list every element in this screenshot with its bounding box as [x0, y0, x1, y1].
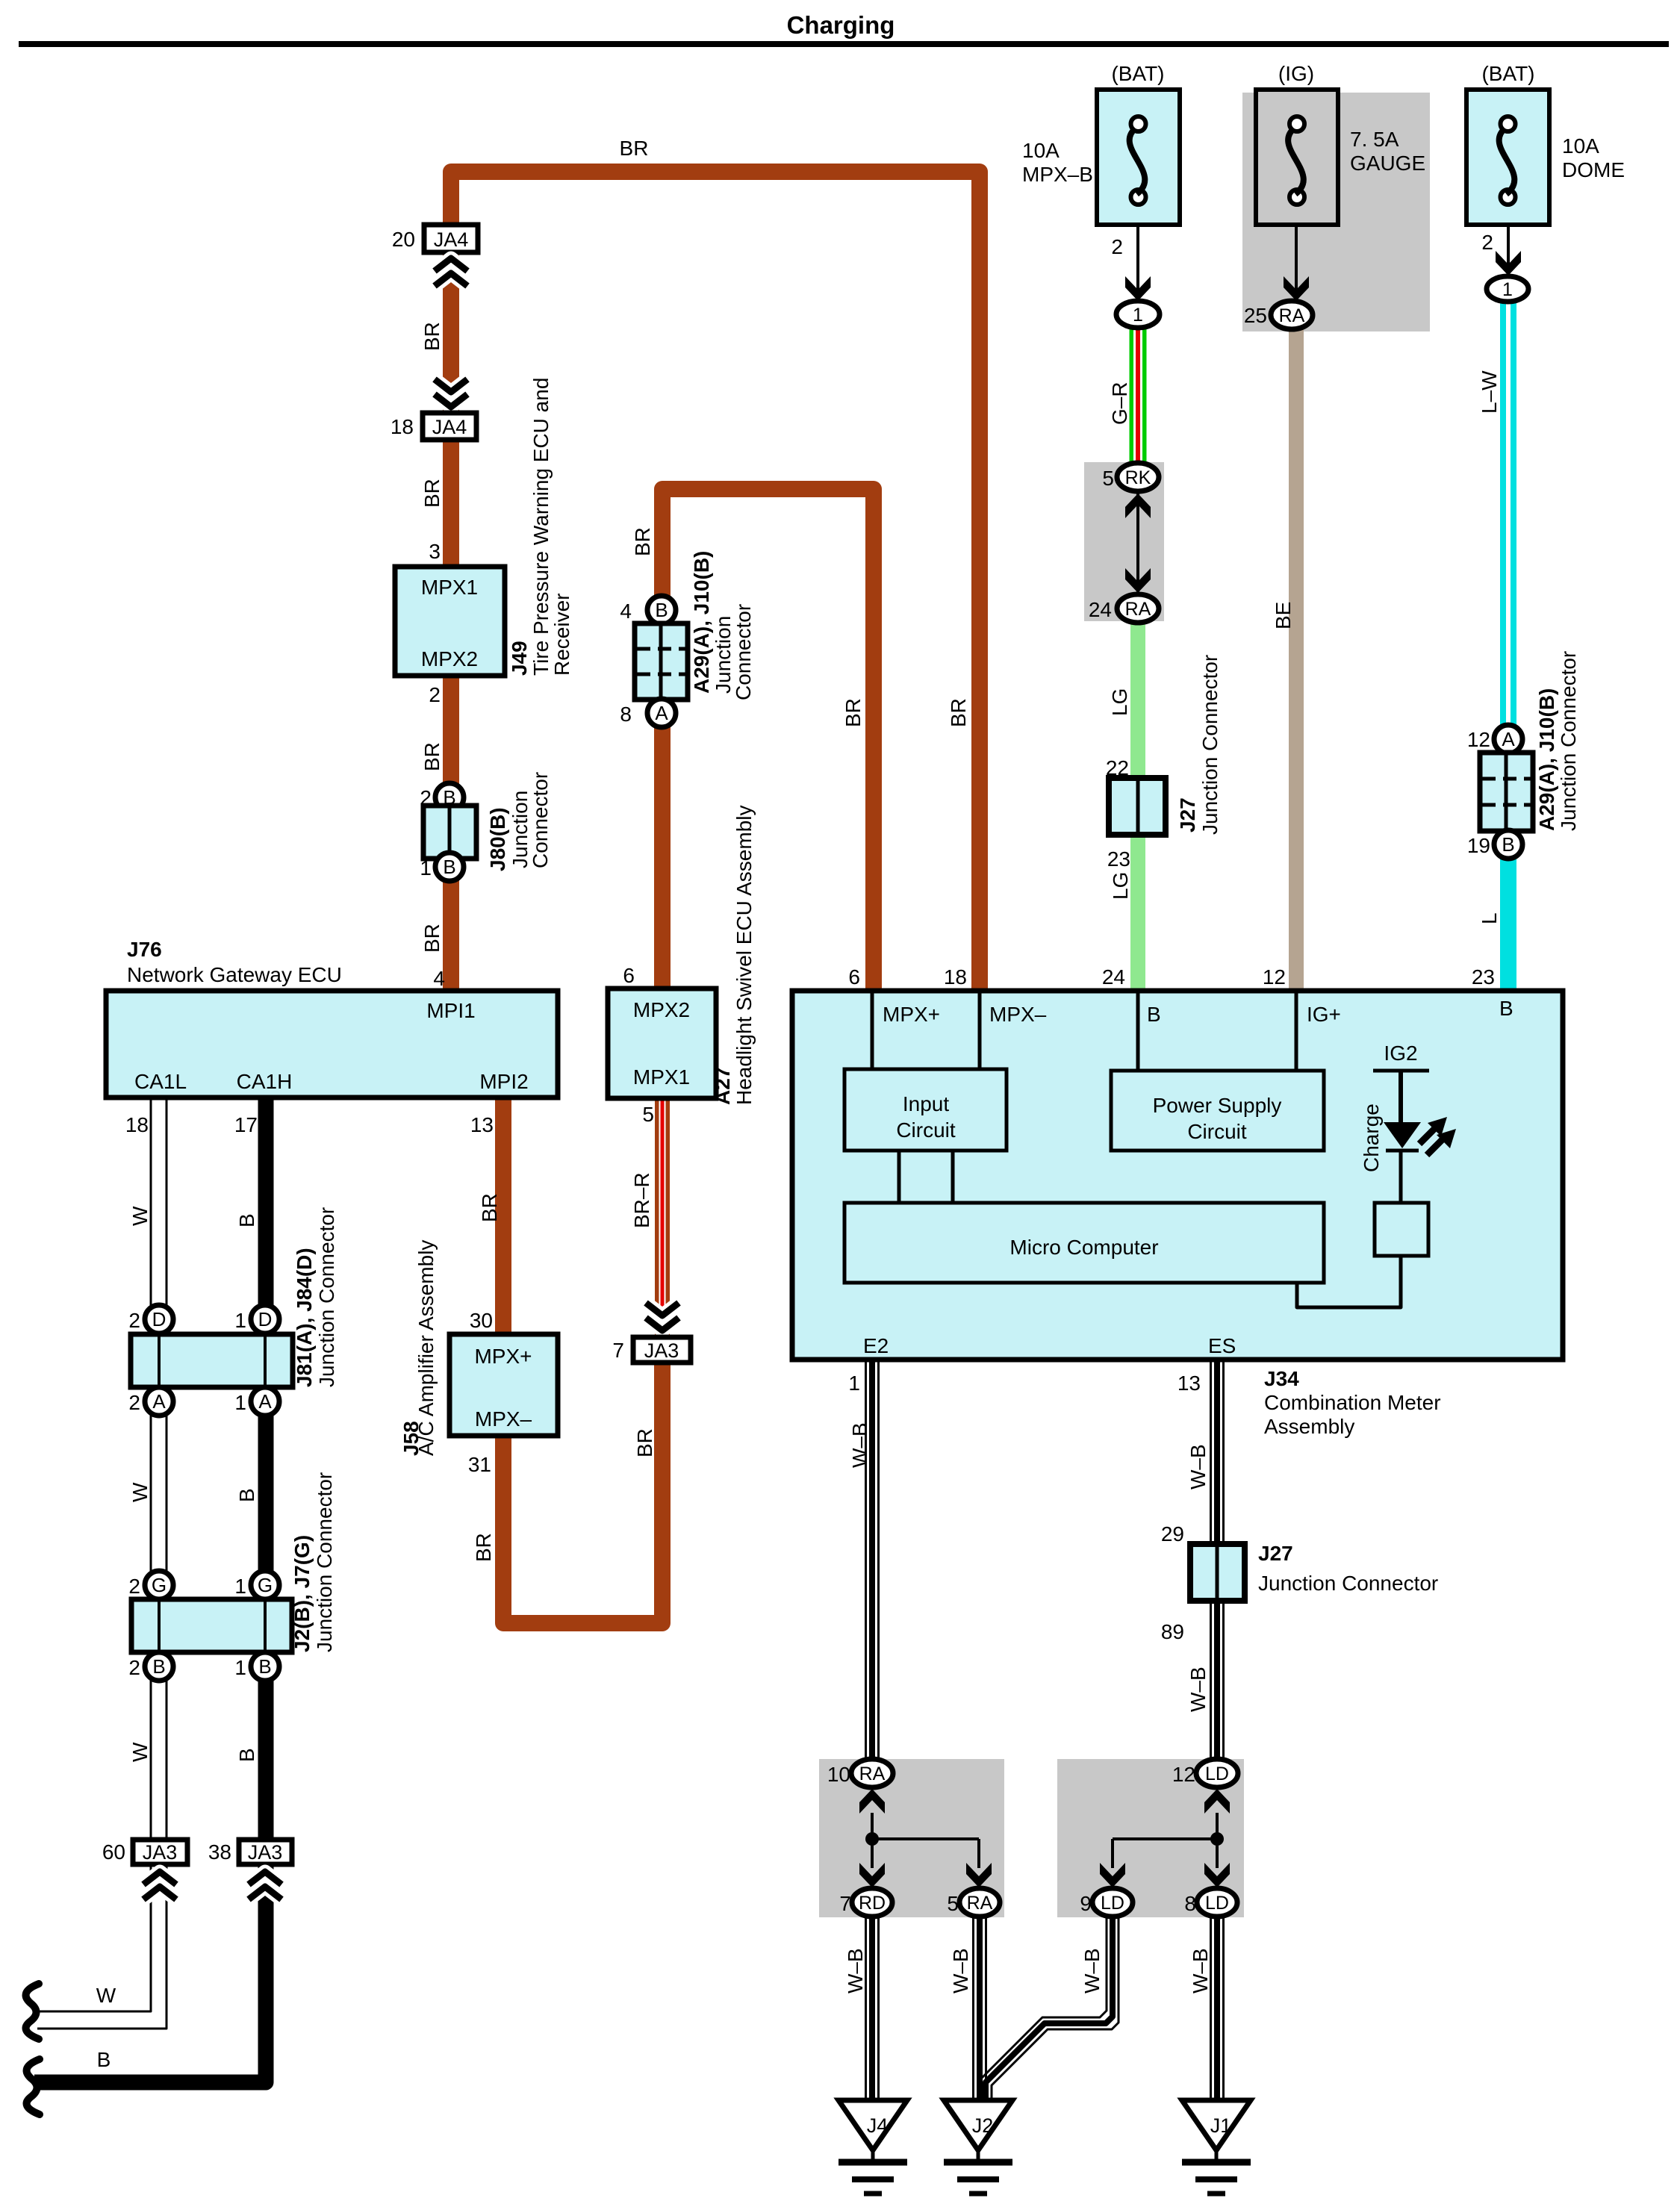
svg-text:J80(B): J80(B) — [486, 807, 509, 871]
svg-text:J2(B), J7(G): J2(B), J7(G) — [290, 1535, 314, 1652]
arrows up JA3 pin60 — [143, 1872, 176, 1884]
svg-text:Charge: Charge — [1360, 1104, 1383, 1172]
svg-text:B: B — [1502, 833, 1514, 856]
svg-text:2: 2 — [128, 1656, 140, 1679]
arrow down to connector RA pin25 — [1284, 276, 1309, 301]
svg-text:24: 24 — [1089, 598, 1112, 621]
svg-text:Junction Connector: Junction Connector — [315, 1207, 338, 1387]
svg-text:Circuit: Circuit — [1187, 1120, 1247, 1143]
svg-text:IG2: IG2 — [1384, 1042, 1417, 1065]
svg-text:J27: J27 — [1258, 1542, 1293, 1565]
svg-text:89: 89 — [1161, 1620, 1184, 1643]
svg-text:BR: BR — [472, 1533, 495, 1562]
wire black RK to RA inside gray block — [1136, 491, 1139, 596]
svg-text:MPX–: MPX– — [475, 1407, 532, 1431]
svg-text:W–B: W–B — [949, 1948, 972, 1993]
svg-text:Assembly: Assembly — [1264, 1415, 1354, 1438]
svg-text:1: 1 — [848, 1372, 860, 1395]
connector JA3 pin7 — [633, 1337, 691, 1363]
svg-text:Headlight Swivel ECU Assembly: Headlight Swivel ECU Assembly — [732, 806, 756, 1106]
wire BR J49 pin2 to J76 MPI1 pin4 — [443, 673, 459, 993]
J34 link micro to resistor — [1297, 1257, 1401, 1307]
svg-text:(BAT): (BAT) — [1481, 62, 1534, 85]
svg-text:Junction Connector: Junction Connector — [1198, 655, 1222, 835]
svg-text:12: 12 — [1263, 965, 1286, 989]
svg-text:19: 19 — [1467, 834, 1490, 857]
connector oval RK pin5 — [1117, 463, 1159, 491]
svg-text:IG+: IG+ — [1307, 1003, 1341, 1026]
junction connector A29(A) J10(B) right — [1494, 725, 1522, 753]
svg-text:Receiver: Receiver — [550, 594, 573, 676]
svg-text:BR: BR — [420, 322, 444, 351]
svg-text:MPX+: MPX+ — [474, 1345, 532, 1368]
svg-text:8: 8 — [1184, 1892, 1196, 1915]
junction connector J27 on ES wire — [1190, 1544, 1245, 1601]
svg-text:12: 12 — [1172, 1763, 1195, 1786]
svg-text:W–B: W–B — [1186, 1444, 1210, 1490]
svg-text:RD: RD — [859, 1893, 886, 1914]
cut squiggle W wire — [26, 1984, 39, 2039]
svg-text:BR: BR — [620, 137, 649, 160]
svg-text:22: 22 — [1106, 756, 1129, 779]
svg-text:RA: RA — [967, 1893, 993, 1914]
connector JA4 pin18 — [423, 413, 476, 440]
svg-text:BE: BE — [1272, 602, 1295, 629]
svg-text:A/C Amplifier Assembly: A/C Amplifier Assembly — [414, 1240, 438, 1456]
svg-text:17: 17 — [234, 1113, 258, 1136]
svg-text:J34: J34 — [1264, 1367, 1299, 1390]
connector oval RA pin10 — [851, 1759, 893, 1787]
svg-text:Tire Pressure Warning ECU and: Tire Pressure Warning ECU and — [529, 378, 553, 676]
svg-text:J49: J49 — [508, 641, 531, 676]
svg-text:4: 4 — [620, 600, 632, 623]
ground J4 — [839, 2100, 907, 2150]
svg-text:B: B — [258, 1655, 271, 1678]
svg-text:G: G — [258, 1574, 273, 1596]
svg-text:MPI2: MPI2 — [479, 1070, 528, 1093]
svg-text:(BAT): (BAT) — [1111, 62, 1164, 85]
svg-text:W–B: W–B — [844, 1948, 867, 1993]
svg-text:BR: BR — [420, 479, 444, 508]
connector oval LD pin8 — [1197, 1888, 1237, 1917]
svg-text:BR: BR — [420, 924, 444, 953]
svg-text:LG: LG — [1109, 872, 1132, 900]
ECU J58 A/C Amplifier Assembly — [449, 1334, 558, 1436]
wire W-B LD pin9 jog to ground J2 — [980, 1916, 1107, 2099]
svg-text:1: 1 — [420, 856, 432, 880]
svg-text:B: B — [443, 856, 455, 878]
svg-text:BR: BR — [631, 527, 654, 556]
gray background RK-RA connector block — [1084, 462, 1164, 621]
svg-text:8: 8 — [620, 703, 632, 726]
meter connector internal links right block — [1216, 1813, 1219, 1868]
svg-text:B: B — [152, 1655, 165, 1678]
fuse 10A DOME — [1466, 90, 1549, 225]
svg-text:LD: LD — [1205, 1764, 1229, 1784]
wire fuse GAUGE lead — [1295, 223, 1298, 294]
svg-text:BR–R: BR–R — [630, 1172, 653, 1228]
junction connector J81(A) J84(D) — [145, 1305, 173, 1333]
svg-text:2: 2 — [128, 1575, 140, 1598]
svg-text:5: 5 — [1102, 467, 1114, 490]
svg-text:MPI1: MPI1 — [426, 999, 475, 1022]
J34 Micro Computer block — [844, 1203, 1324, 1283]
J34 Power Supply Circuit block — [1111, 1071, 1324, 1151]
arrows up JA3 pin38 — [249, 1872, 281, 1884]
svg-text:A: A — [655, 702, 668, 724]
svg-text:2: 2 — [420, 786, 432, 809]
svg-text:W–B: W–B — [1186, 1666, 1210, 1712]
connector oval 1 MPX-B — [1116, 301, 1160, 328]
svg-text:Junction Connector: Junction Connector — [1557, 651, 1580, 831]
svg-text:J2: J2 — [972, 2114, 994, 2137]
svg-text:BR: BR — [841, 698, 865, 727]
svg-text:W–B: W–B — [848, 1422, 871, 1468]
svg-text:JA3: JA3 — [248, 1841, 283, 1864]
svg-text:B: B — [655, 599, 668, 621]
svg-text:Junction Connector: Junction Connector — [1258, 1572, 1438, 1595]
svg-text:1: 1 — [234, 1309, 246, 1332]
svg-text:D: D — [258, 1308, 273, 1330]
svg-text:24: 24 — [1102, 965, 1125, 989]
svg-text:W: W — [96, 1984, 116, 2007]
svg-text:A: A — [1502, 728, 1515, 750]
svg-text:B: B — [1147, 1003, 1161, 1026]
connector oval RA pin25 — [1271, 301, 1313, 329]
svg-text:25: 25 — [1244, 304, 1267, 327]
gray background meter connector block right — [1057, 1759, 1244, 1917]
svg-text:38: 38 — [208, 1840, 231, 1864]
cut squiggle B wire — [27, 2059, 40, 2114]
ECU J34 Combination Meter Assembly — [792, 991, 1563, 1360]
ECU J49 Tire Pressure Warning ECU and Receiver — [395, 567, 505, 676]
svg-text:W–B: W–B — [1080, 1948, 1104, 1993]
svg-text:CA1H: CA1H — [237, 1070, 293, 1093]
svg-text:23: 23 — [1107, 847, 1130, 871]
wire W-B LD pin8 to ground J1 — [1210, 1916, 1212, 2102]
fuse 7.5A GAUGE — [1256, 90, 1338, 225]
svg-text:RA: RA — [1125, 599, 1151, 620]
wire BE RA pin25 to J34 IG+ pin12 — [1289, 327, 1304, 993]
gray background IG fuse block — [1242, 93, 1430, 331]
svg-text:2: 2 — [1481, 231, 1493, 254]
svg-text:1: 1 — [1502, 279, 1513, 300]
wire LG RA pin24 to J34 B pin24 — [1130, 620, 1145, 993]
svg-text:W: W — [128, 1482, 152, 1502]
ground J1 — [1182, 2100, 1251, 2150]
svg-text:10: 10 — [827, 1763, 850, 1786]
svg-text:MPX–B: MPX–B — [1022, 163, 1093, 186]
ground J2 — [944, 2100, 1012, 2150]
svg-text:30: 30 — [470, 1309, 493, 1332]
svg-text:BR: BR — [947, 698, 970, 727]
svg-text:3: 3 — [429, 540, 441, 563]
svg-text:MPX2: MPX2 — [633, 998, 690, 1021]
svg-text:W–B: W–B — [1189, 1948, 1212, 1993]
svg-text:6: 6 — [623, 964, 635, 987]
svg-text:18: 18 — [391, 415, 414, 438]
svg-text:J76: J76 — [127, 938, 162, 961]
svg-text:J1: J1 — [1210, 2114, 1232, 2137]
wire G-R fuse MPX-B to RK pin5 — [1130, 326, 1147, 466]
svg-text:60: 60 — [102, 1840, 125, 1864]
junction connector J80(B) — [435, 783, 464, 812]
svg-text:MPX–: MPX– — [989, 1003, 1047, 1026]
svg-text:A29(A), J10(B): A29(A), J10(B) — [690, 551, 713, 694]
arrow down to connector 1 MPX-B — [1125, 276, 1151, 301]
J34 links input to micro — [897, 1151, 901, 1203]
svg-text:DOME: DOME — [1562, 158, 1625, 181]
connector JA4 pin20 — [424, 225, 478, 252]
svg-text:2: 2 — [128, 1391, 140, 1414]
svg-text:Input: Input — [903, 1092, 949, 1115]
wire W-B RA pin5 to ground J2 — [972, 1916, 974, 2102]
J34 internal pin lines — [871, 993, 874, 1069]
wire W-B J34 ES pin13 to meter connector LD pin12 — [1210, 1362, 1212, 1761]
svg-text:Power Supply: Power Supply — [1153, 1094, 1282, 1117]
fuse 10A MPX-B — [1097, 90, 1180, 225]
junction connector J27 on LG wire — [1109, 778, 1166, 835]
svg-text:7. 5A: 7. 5A — [1350, 128, 1399, 151]
arrows down JA3 pin7 — [646, 1303, 679, 1316]
svg-text:Combination Meter: Combination Meter — [1264, 1391, 1441, 1414]
wire B CA1H thick black — [34, 1096, 266, 2082]
arrow down to connector 1 DOME — [1496, 251, 1521, 276]
wire W-B RD pin7 to ground J4 — [865, 1916, 867, 2102]
wire L-W fuse DOME to J34 B pin23 — [1500, 300, 1516, 993]
svg-text:31: 31 — [468, 1453, 491, 1476]
connector oval RD pin7 — [852, 1888, 892, 1917]
svg-text:B: B — [1499, 997, 1513, 1020]
arrows up JA4 pin20 — [435, 258, 467, 271]
svg-text:5: 5 — [947, 1892, 959, 1915]
svg-text:B: B — [235, 1213, 258, 1227]
connector JA3 pin38 — [239, 1840, 292, 1864]
svg-text:10A: 10A — [1562, 134, 1599, 158]
svg-text:A: A — [152, 1390, 166, 1413]
svg-text:LD: LD — [1101, 1893, 1124, 1914]
ECU A27 Headlight Swivel ECU Assembly — [608, 989, 716, 1098]
J34 LED light arrows — [1419, 1128, 1435, 1144]
svg-text:RA: RA — [1279, 305, 1305, 326]
wire W CA1L double line — [37, 1096, 151, 2011]
svg-text:Connector: Connector — [732, 604, 755, 700]
svg-text:1: 1 — [1133, 305, 1143, 326]
svg-text:2: 2 — [128, 1309, 140, 1332]
svg-text:A: A — [258, 1390, 272, 1413]
svg-text:1: 1 — [234, 1656, 246, 1679]
svg-text:JA3: JA3 — [644, 1339, 679, 1362]
svg-text:LD: LD — [1205, 1893, 1229, 1914]
wire BR outer loop J49 pin3 to J34 MPX- pin18 — [451, 172, 980, 993]
junction connector A29(A) J10(B) left — [647, 596, 676, 624]
svg-text:23: 23 — [1472, 965, 1495, 989]
svg-text:13: 13 — [1177, 1372, 1201, 1395]
svg-text:GAUGE: GAUGE — [1350, 152, 1425, 175]
wire W-B J34 E2 pin1 to meter connector RA pin10 — [865, 1362, 867, 1761]
svg-text:BR: BR — [420, 742, 444, 771]
svg-text:RA: RA — [859, 1764, 886, 1784]
svg-text:D: D — [152, 1308, 167, 1330]
connector oval 1 DOME — [1487, 276, 1528, 302]
svg-text:W: W — [128, 1742, 152, 1762]
wire fuse DOME lead — [1507, 223, 1510, 269]
svg-text:1: 1 — [234, 1575, 246, 1598]
svg-text:5: 5 — [642, 1103, 654, 1126]
svg-text:MPX+: MPX+ — [883, 1003, 940, 1026]
connector oval RA pin5 — [959, 1888, 1000, 1917]
svg-text:7: 7 — [839, 1892, 851, 1915]
svg-text:MPX1: MPX1 — [421, 576, 478, 599]
arrow down to RA pin24 — [1125, 568, 1151, 593]
svg-text:4: 4 — [433, 967, 445, 990]
svg-text:CA1L: CA1L — [134, 1070, 187, 1093]
svg-text:A29(A), J10(B): A29(A), J10(B) — [1535, 688, 1558, 831]
svg-text:G–R: G–R — [1108, 382, 1131, 425]
svg-text:G: G — [152, 1574, 167, 1596]
connector oval RA pin24 — [1117, 594, 1159, 623]
svg-text:18: 18 — [944, 965, 967, 989]
svg-text:6: 6 — [848, 965, 860, 989]
meter connector internal links left block — [871, 1813, 874, 1868]
svg-text:7: 7 — [612, 1339, 624, 1362]
connector oval LD pin9 — [1092, 1888, 1133, 1917]
svg-text:W: W — [128, 1206, 152, 1226]
svg-text:J4: J4 — [867, 2114, 889, 2137]
svg-text:JA4: JA4 — [432, 416, 467, 438]
svg-text:J81(A), J84(D): J81(A), J84(D) — [293, 1248, 316, 1387]
svg-text:RK: RK — [1125, 467, 1151, 488]
svg-text:2: 2 — [429, 683, 441, 706]
svg-text:ES: ES — [1208, 1334, 1236, 1357]
wire fuse MPX-B lead — [1136, 223, 1139, 294]
svg-text:L–W: L–W — [1478, 370, 1501, 414]
wire BR U-loop J58 MPX- pin31 to JA3 pin7 — [503, 1365, 662, 1623]
svg-text:Junction Connector: Junction Connector — [313, 1472, 336, 1652]
svg-text:2: 2 — [1111, 235, 1123, 258]
svg-text:L: L — [1478, 912, 1501, 924]
svg-text:Micro Computer: Micro Computer — [1009, 1236, 1158, 1259]
svg-text:BR: BR — [478, 1193, 501, 1222]
connector oval LD pin12 — [1196, 1759, 1238, 1787]
svg-text:MPX2: MPX2 — [421, 647, 478, 670]
svg-text:LG: LG — [1108, 688, 1131, 716]
svg-text:B: B — [235, 1748, 258, 1762]
svg-text:Circuit: Circuit — [896, 1118, 956, 1142]
wire BR J76 MPI2 pin13 to J58 MPX+ pin30 — [495, 1096, 511, 1336]
svg-text:Connector: Connector — [529, 772, 552, 868]
svg-text:13: 13 — [470, 1113, 494, 1136]
svg-text:A27: A27 — [711, 1067, 734, 1105]
svg-text:9: 9 — [1080, 1892, 1092, 1915]
svg-text:JA4: JA4 — [434, 228, 469, 251]
arrow up to RK pin5 — [1125, 494, 1151, 518]
J34 resistor block — [1375, 1203, 1428, 1256]
svg-text:10A: 10A — [1022, 139, 1060, 162]
svg-text:JA3: JA3 — [143, 1841, 178, 1864]
svg-text:29: 29 — [1161, 1522, 1184, 1546]
svg-text:12: 12 — [1467, 728, 1490, 751]
svg-text:B: B — [235, 1488, 258, 1502]
gray background meter connector block left — [819, 1759, 1004, 1917]
svg-text:MPX1: MPX1 — [633, 1065, 690, 1089]
svg-text:20: 20 — [392, 228, 415, 251]
svg-text:B: B — [97, 2048, 111, 2071]
J34 charge LED — [1384, 1122, 1421, 1148]
svg-text:Charging: Charging — [787, 11, 895, 39]
svg-text:Network Gateway ECU: Network Gateway ECU — [127, 963, 342, 986]
svg-text:(IG): (IG) — [1278, 62, 1314, 85]
wire BR-R A27 MPX1 pin5 to JA3 pin7 — [655, 1096, 670, 1339]
svg-text:1: 1 — [234, 1391, 246, 1414]
junction connector J2(B) J7(G) — [145, 1571, 173, 1599]
wire BR inner loop A27 MPX2 pin6 to J34 MPX+ pin6 — [662, 489, 874, 993]
svg-text:E2: E2 — [863, 1334, 889, 1357]
svg-text:18: 18 — [125, 1113, 149, 1136]
connector JA3 pin60 — [133, 1840, 187, 1864]
svg-text:J27: J27 — [1176, 797, 1199, 832]
svg-text:BR: BR — [633, 1428, 656, 1457]
J34 Input Circuit block — [844, 1069, 1007, 1151]
arrows down JA4 pin18 — [435, 379, 467, 392]
